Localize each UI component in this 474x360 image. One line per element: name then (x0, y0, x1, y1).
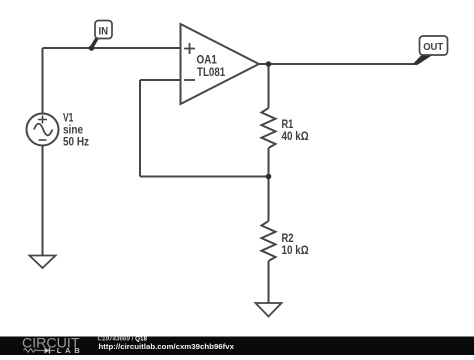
wire output node down to R1 (268, 64, 270, 108)
ground (under V1) (30, 256, 56, 269)
svg-text:OA1: OA1 (197, 54, 218, 66)
op-amp OA1 label (197, 54, 226, 79)
svg-text:http://circuitlab.com/cxm39chb: http://circuitlab.com/cxm39chb96fvx (99, 342, 235, 351)
wire op-amp inverting input stub (140, 79, 181, 81)
wire R1 bottom to divider node (268, 148, 270, 177)
svg-text:10 kΩ: 10 kΩ (282, 245, 309, 257)
svg-text:R1: R1 (282, 119, 294, 131)
R2 value label (282, 233, 309, 257)
svg-text:TL081: TL081 (197, 67, 226, 79)
V1 value label (63, 113, 89, 149)
resistor R1 (262, 108, 276, 148)
wire feedback vertical (139, 80, 141, 177)
svg-text:R2: R2 (282, 233, 294, 245)
footer bar (0, 337, 474, 356)
svg-text:sine: sine (63, 125, 83, 137)
IN flag (89, 21, 112, 51)
svg-text:OUT: OUT (423, 42, 444, 53)
op-amp OA1 (181, 24, 260, 104)
R1 value label (282, 119, 309, 143)
wire R2 bottom to ground (268, 261, 270, 303)
svg-text:LAB: LAB (57, 346, 81, 355)
ground (under R2) (256, 303, 282, 317)
svg-text:IN: IN (99, 26, 109, 38)
node divider junction (266, 174, 272, 180)
wire feedback horizontal to divider node (140, 176, 269, 178)
voltage source V1 body (27, 114, 59, 146)
wire V1 bottom to ground (42, 146, 44, 256)
svg-text:50 Hz: 50 Hz (63, 136, 89, 148)
OUT flag (412, 36, 448, 65)
svg-text:40 kΩ: 40 kΩ (282, 131, 309, 143)
CircuitLab logo wordmark (22, 335, 80, 355)
wire divider node down to R2 (268, 177, 270, 222)
wire op-amp output to OUT (259, 63, 415, 65)
wire V1 top vertical (42, 48, 44, 114)
wire IN node horizontal (V1 top to op-amp + input) (43, 47, 181, 49)
resistor R2 (262, 221, 276, 261)
svg-text:V1: V1 (63, 113, 74, 125)
node output junction (266, 61, 272, 67)
